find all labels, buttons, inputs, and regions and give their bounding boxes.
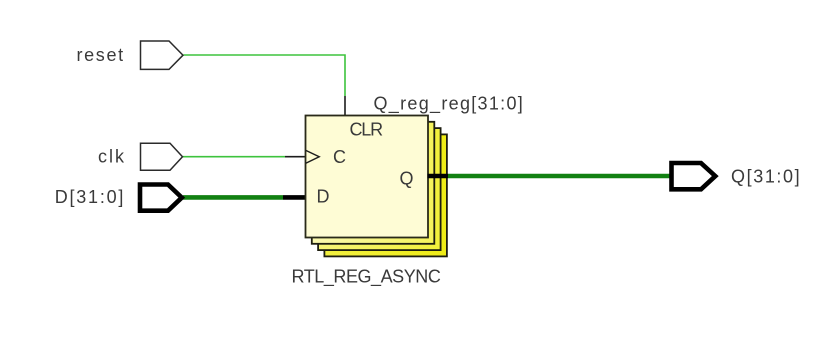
svg-text:D[31:0]: D[31:0] — [55, 187, 125, 207]
port clk (input, scalar) — [141, 143, 183, 170]
port reset (input, scalar) — [141, 41, 184, 69]
wire reset net dark segment into CLR pin — [344, 96, 346, 116]
svg-text:CLR: CLR — [350, 120, 384, 140]
wire D bus net (thick green) — [183, 195, 283, 200]
wire Q bus net (thick green) — [448, 174, 670, 179]
register Q_reg_reg[31:0] front body — [306, 116, 429, 238]
pin C clock marker triangle — [306, 150, 319, 163]
wire clk net dark segment into C pin — [285, 156, 306, 158]
register Q_reg_reg[31:0] back layer 3 — [318, 128, 441, 250]
svg-text:clk: clk — [98, 146, 126, 166]
svg-text:Q: Q — [400, 168, 414, 188]
svg-text:C: C — [333, 147, 346, 167]
svg-text:D: D — [317, 187, 330, 207]
wire Q bus dark stub across register stack — [428, 174, 449, 179]
svg-text:Q_reg_reg[31:0]: Q_reg_reg[31:0] — [374, 93, 525, 114]
register Q_reg_reg[31:0] back layer 2 — [312, 122, 435, 244]
port D[31:0] (input bus, bold) — [140, 185, 182, 211]
svg-text:reset: reset — [77, 45, 125, 65]
svg-text:RTL_REG_ASYNC: RTL_REG_ASYNC — [292, 267, 441, 288]
wire clk net (green) — [183, 156, 285, 158]
svg-text:Q[31:0]: Q[31:0] — [731, 166, 801, 186]
wire D bus dark segment into D pin — [283, 195, 306, 200]
register Q_reg_reg[31:0] back layer 4 — [324, 134, 447, 256]
port Q[31:0] (output bus, bold) — [672, 163, 716, 189]
wire reset net (green horizontal + vertical) — [184, 55, 346, 96]
